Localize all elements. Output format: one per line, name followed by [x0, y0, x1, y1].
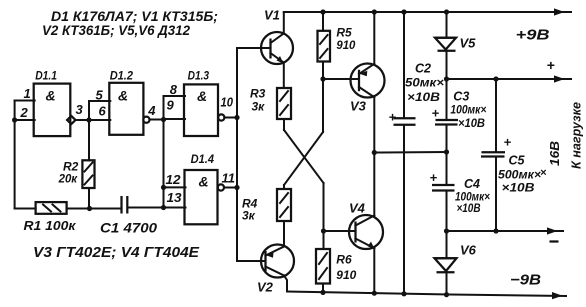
- svg-text:V2 КТ361Б; V5,V6 Д312: V2 КТ361Б; V5,V6 Д312: [42, 22, 190, 38]
- diode V5 (D312): [435, 38, 457, 51]
- resistor R5: [318, 31, 331, 62]
- svg-text:11: 11: [222, 171, 236, 186]
- wire: cross diagonal R5/V3 base column to R4: [284, 132, 323, 185]
- svg-text:6: 6: [99, 104, 107, 119]
- junction R5/V3 base: [320, 76, 325, 81]
- svg-text:8: 8: [170, 82, 178, 97]
- wire: R1 left: [15, 208, 36, 210]
- svg-text:+: +: [432, 106, 440, 121]
- wire: C5 column lower: [495, 158, 497, 232]
- junction V5/C3/+rail: [444, 76, 449, 81]
- terminal arrow + rail: [554, 75, 565, 82]
- svg-text:−9В: −9В: [510, 272, 541, 289]
- svg-text:V3 ГТ402Е; V4 ГТ404Е: V3 ГТ402Е; V4 ГТ404Е: [33, 245, 200, 261]
- wire: V4 collector to output node: [373, 153, 375, 216]
- wire: V4 base: [324, 230, 354, 232]
- svg-text:R1 100к: R1 100к: [24, 218, 78, 233]
- svg-text:×10В: ×10В: [407, 90, 440, 104]
- svg-text:К нагрузке: К нагрузке: [570, 102, 584, 169]
- wire: bottom bus: [287, 292, 566, 297]
- resistor R3: [277, 88, 291, 119]
- junction pin2/feedback: [12, 117, 17, 122]
- junction V3 emitter/top bus: [372, 9, 377, 14]
- wire: base bus x237 (V1.b - out10 - out11 - V2.b): [236, 48, 238, 261]
- junction R2/R1/C1: [87, 206, 92, 211]
- wire: +9V top bus: [284, 11, 571, 13]
- svg-text:&: &: [199, 174, 209, 190]
- svg-text:1: 1: [24, 86, 31, 101]
- wire: C5 column upper: [495, 79, 497, 152]
- svg-text:V1: V1: [264, 8, 280, 23]
- transistor V4 (GT404E npn): [349, 215, 383, 249]
- wire: R5 bottom to cross: [322, 62, 324, 133]
- wire: V1 collector to +9V bus: [283, 12, 285, 33]
- wire: V3 collector to output node: [373, 97, 375, 152]
- svg-text:12: 12: [166, 173, 181, 187]
- node A junction (out3 / pins5,6 / R2): [86, 117, 91, 122]
- wire: R1 to C1: [67, 208, 120, 210]
- svg-text:D1.4: D1.4: [191, 154, 215, 166]
- svg-text:910: 910: [336, 268, 356, 282]
- svg-text:+9В: +9В: [516, 27, 550, 44]
- svg-text:×10В: ×10В: [458, 116, 485, 130]
- wire: output rail to C3/C4 column: [374, 151, 446, 154]
- junction C2/top bus: [401, 9, 406, 14]
- gate D1.4 output bubble, pin 11: [218, 184, 224, 190]
- svg-text:100мк×: 100мк×: [450, 103, 486, 117]
- wire: C2 column upper: [403, 12, 405, 118]
- resistor R4: [277, 189, 291, 221]
- wire: V6 to bottom bus: [446, 272, 448, 294]
- junction C5/lower rail: [493, 228, 498, 233]
- svg-text:4: 4: [147, 103, 156, 118]
- junction V4 base/column: [321, 228, 326, 233]
- svg-text:&: &: [197, 88, 207, 104]
- transistor V3 (GT402E pnp): [351, 64, 385, 98]
- resistor R1: [36, 202, 67, 214]
- svg-text:×: ×: [540, 167, 547, 179]
- terminal arrow lower rail: [547, 227, 558, 234]
- svg-text:2: 2: [20, 105, 29, 120]
- junction out4/pins 8,9: [161, 117, 166, 122]
- gate D1.1 box: [34, 84, 71, 137]
- wire: out3 to node A: [76, 119, 90, 121]
- junction V6/bottom bus: [444, 292, 449, 297]
- wire: pin 1 stub: [15, 100, 35, 102]
- svg-text:D1.2: D1.2: [110, 71, 134, 83]
- svg-text:&: &: [118, 88, 128, 104]
- junction pin13/C1: [161, 205, 166, 210]
- wire: V5 column top: [446, 12, 448, 38]
- svg-text:10: 10: [221, 96, 234, 110]
- gate D1.2 output bubble, pin 4: [143, 117, 149, 123]
- wire: out10 to base bus: [225, 117, 238, 119]
- wire: R5 top stub: [322, 12, 324, 31]
- wire: V4 base column (cross to R6): [323, 183, 325, 249]
- svg-text:C1 4700: C1 4700: [100, 221, 158, 236]
- wire: left input vertical (pins 1,2 to R1): [14, 101, 16, 209]
- svg-text:3: 3: [76, 102, 84, 117]
- wire: pin 2 stub: [15, 119, 35, 121]
- junction V5/top bus: [444, 9, 449, 14]
- wire: lower output rail: [447, 230, 564, 232]
- junction V4 emitter/bottom bus: [372, 291, 377, 296]
- resistor R2: [82, 160, 94, 188]
- wire: R4 top stub: [283, 185, 285, 189]
- svg-text:R6: R6: [336, 253, 352, 267]
- svg-text:910: 910: [336, 38, 355, 52]
- wire: out11 to base bus: [224, 187, 237, 189]
- wire: C2 column lower: [403, 126, 405, 294]
- capacitor C5 plates: [481, 152, 505, 156]
- svg-text:5: 5: [96, 88, 104, 103]
- wire: node A vertical down to R2 top: [88, 120, 90, 160]
- wire: + output rail: [447, 78, 572, 80]
- svg-text:R3: R3: [250, 87, 266, 101]
- wire: V1 base: [237, 47, 269, 49]
- svg-text:D1.1: D1.1: [35, 71, 57, 83]
- svg-text:×10В: ×10В: [457, 201, 481, 215]
- svg-text:C5: C5: [509, 154, 526, 168]
- wire: R2 bottom to R1/C1 node: [88, 188, 90, 209]
- svg-text:×10В: ×10В: [502, 181, 535, 195]
- junction output rail / C3-C4 column: [444, 149, 449, 154]
- wire: C4 to V6: [446, 192, 448, 259]
- svg-text:3к: 3к: [252, 100, 266, 114]
- svg-text:V6: V6: [460, 243, 477, 258]
- terminal arrow top bus: [554, 8, 565, 15]
- svg-text:V3: V3: [350, 99, 367, 114]
- capacitor C3 plates: [435, 120, 458, 125]
- junction R6/bottom bus: [320, 290, 325, 295]
- wire: V3 base: [323, 78, 358, 80]
- wire: V2 collector to bottom bus: [284, 276, 287, 292]
- wire: V4 emitter to bottom bus: [373, 248, 375, 293]
- svg-text:20к: 20к: [58, 172, 78, 186]
- wire: out4 to pin 8/9 riser: [150, 119, 164, 121]
- capacitor C2 plates: [394, 118, 416, 125]
- resistor R6: [316, 249, 330, 284]
- wire: R3 bottom stub: [283, 119, 285, 130]
- wire: riser x163.5 (pins 8,9,12,13 common): [163, 96, 165, 208]
- svg-text:+: +: [389, 110, 397, 125]
- wire: V2 base: [237, 260, 264, 262]
- gate D1.4 box: [185, 170, 218, 224]
- svg-text:V2: V2: [257, 280, 274, 295]
- capacitor C4 plates: [432, 185, 455, 191]
- svg-text:+: +: [430, 170, 438, 185]
- wire: V5 to + rail / C3: [446, 51, 448, 119]
- wire: R4 bottom to V2 emitter: [283, 221, 285, 247]
- wire: pin 13 stub: [164, 207, 186, 209]
- wire: V3 emitter to top bus: [373, 12, 375, 64]
- minus terminal mark: [550, 240, 559, 242]
- wire: C1 to pin 13: [129, 207, 164, 209]
- wire: V1 emitter to R3: [283, 63, 285, 88]
- wire: pin 12 stub: [164, 186, 186, 188]
- svg-text:C3: C3: [453, 90, 469, 104]
- svg-text:V4: V4: [349, 201, 366, 216]
- wire: R6 bottom to bottom bus: [322, 284, 324, 293]
- wire: pin 9 stub: [164, 118, 186, 120]
- junction out11/base bus: [234, 185, 239, 190]
- terminal arrow bottom bus: [552, 292, 563, 299]
- junction C2/bottom bus: [401, 291, 406, 296]
- svg-text:50мк×: 50мк×: [405, 76, 444, 90]
- svg-text:9: 9: [167, 98, 175, 113]
- svg-text:500мк×: 500мк×: [498, 168, 541, 182]
- transistor V2 (KT361B pnp): [261, 245, 294, 278]
- svg-text:+: +: [547, 57, 555, 73]
- junction R5/top bus: [320, 9, 325, 14]
- svg-text:V5: V5: [460, 36, 477, 51]
- junction output node: [372, 150, 377, 155]
- svg-text:D1.3: D1.3: [188, 71, 210, 83]
- svg-text:C2: C2: [415, 62, 431, 76]
- gate D1.2 box: [109, 83, 143, 135]
- junction out10/base bus: [234, 115, 239, 120]
- diode V6 (D312): [434, 258, 457, 272]
- svg-text:16В: 16В: [547, 141, 562, 166]
- svg-text:&: &: [46, 88, 56, 104]
- gate D1.1 output inversion diamond, pin 3: [67, 116, 75, 124]
- wire: cross diagonal R3 to V4 base column: [284, 130, 324, 183]
- gate D1.3 output bubble, pin 10: [218, 114, 224, 120]
- svg-text:13: 13: [167, 191, 182, 205]
- gate D1.3 box: [184, 84, 218, 136]
- capacitor C1: [122, 196, 128, 214]
- wire: C3 to C4: [446, 126, 448, 185]
- transistor V1 (KT315B npn): [261, 32, 293, 64]
- junction pin12 riser: [161, 185, 166, 190]
- wire: pin 5 stub: [89, 101, 110, 120]
- junction C5/+rail: [493, 76, 498, 81]
- svg-text:+: +: [504, 135, 512, 150]
- svg-text:3к: 3к: [242, 209, 256, 223]
- wire: pin 8 stub: [164, 95, 186, 97]
- junction C4/V6/lower rail: [444, 228, 449, 233]
